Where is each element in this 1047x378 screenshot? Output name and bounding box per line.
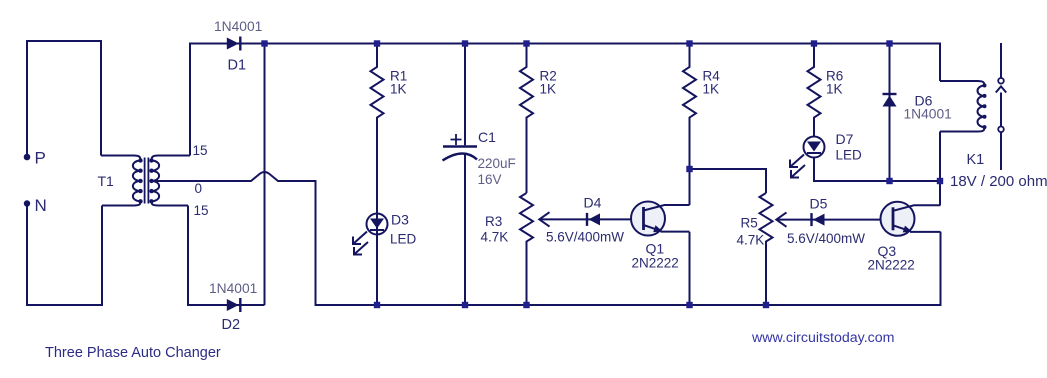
svg-text:5.6V/400mW: 5.6V/400mW	[787, 231, 865, 246]
svg-text:R5: R5	[741, 216, 758, 231]
svg-text:P: P	[35, 149, 46, 168]
svg-text:1N4001: 1N4001	[209, 281, 257, 296]
svg-text:1N4001: 1N4001	[214, 19, 262, 34]
svg-text:1K: 1K	[703, 82, 720, 97]
svg-text:R3: R3	[485, 214, 502, 229]
svg-text:LED: LED	[836, 147, 863, 162]
svg-text:1K: 1K	[826, 82, 843, 97]
svg-text:220uF: 220uF	[478, 156, 516, 171]
svg-text:D4: D4	[584, 195, 602, 211]
svg-text:D2: D2	[222, 317, 241, 333]
svg-text:1N4001: 1N4001	[904, 107, 952, 122]
svg-text:1K: 1K	[540, 82, 557, 97]
svg-text:5.6V/400mW: 5.6V/400mW	[546, 230, 624, 245]
svg-text:D5: D5	[810, 196, 828, 212]
svg-text:C1: C1	[478, 129, 496, 145]
svg-text:2N2222: 2N2222	[632, 256, 679, 271]
svg-text:D3: D3	[391, 212, 409, 228]
svg-text:0: 0	[195, 181, 203, 196]
svg-text:Three Phase Auto Changer: Three Phase Auto Changer	[45, 345, 221, 361]
svg-text:K1: K1	[967, 152, 985, 168]
svg-text:15: 15	[193, 143, 208, 158]
svg-text:15: 15	[194, 203, 209, 218]
svg-text:www.circuitstoday.com: www.circuitstoday.com	[751, 330, 894, 346]
svg-text:N: N	[35, 196, 47, 215]
svg-text:1K: 1K	[390, 82, 407, 97]
svg-text:T1: T1	[98, 173, 115, 189]
svg-text:LED: LED	[390, 232, 417, 247]
svg-text:2N2222: 2N2222	[868, 258, 915, 273]
svg-text:18V / 200 ohm: 18V / 200 ohm	[950, 173, 1047, 190]
svg-text:Q1: Q1	[646, 241, 665, 257]
svg-text:16V: 16V	[478, 172, 502, 187]
svg-text:4.7K: 4.7K	[481, 230, 509, 245]
svg-text:D1: D1	[228, 58, 247, 74]
svg-text:4.7K: 4.7K	[737, 233, 765, 248]
svg-text:D7: D7	[836, 131, 854, 147]
